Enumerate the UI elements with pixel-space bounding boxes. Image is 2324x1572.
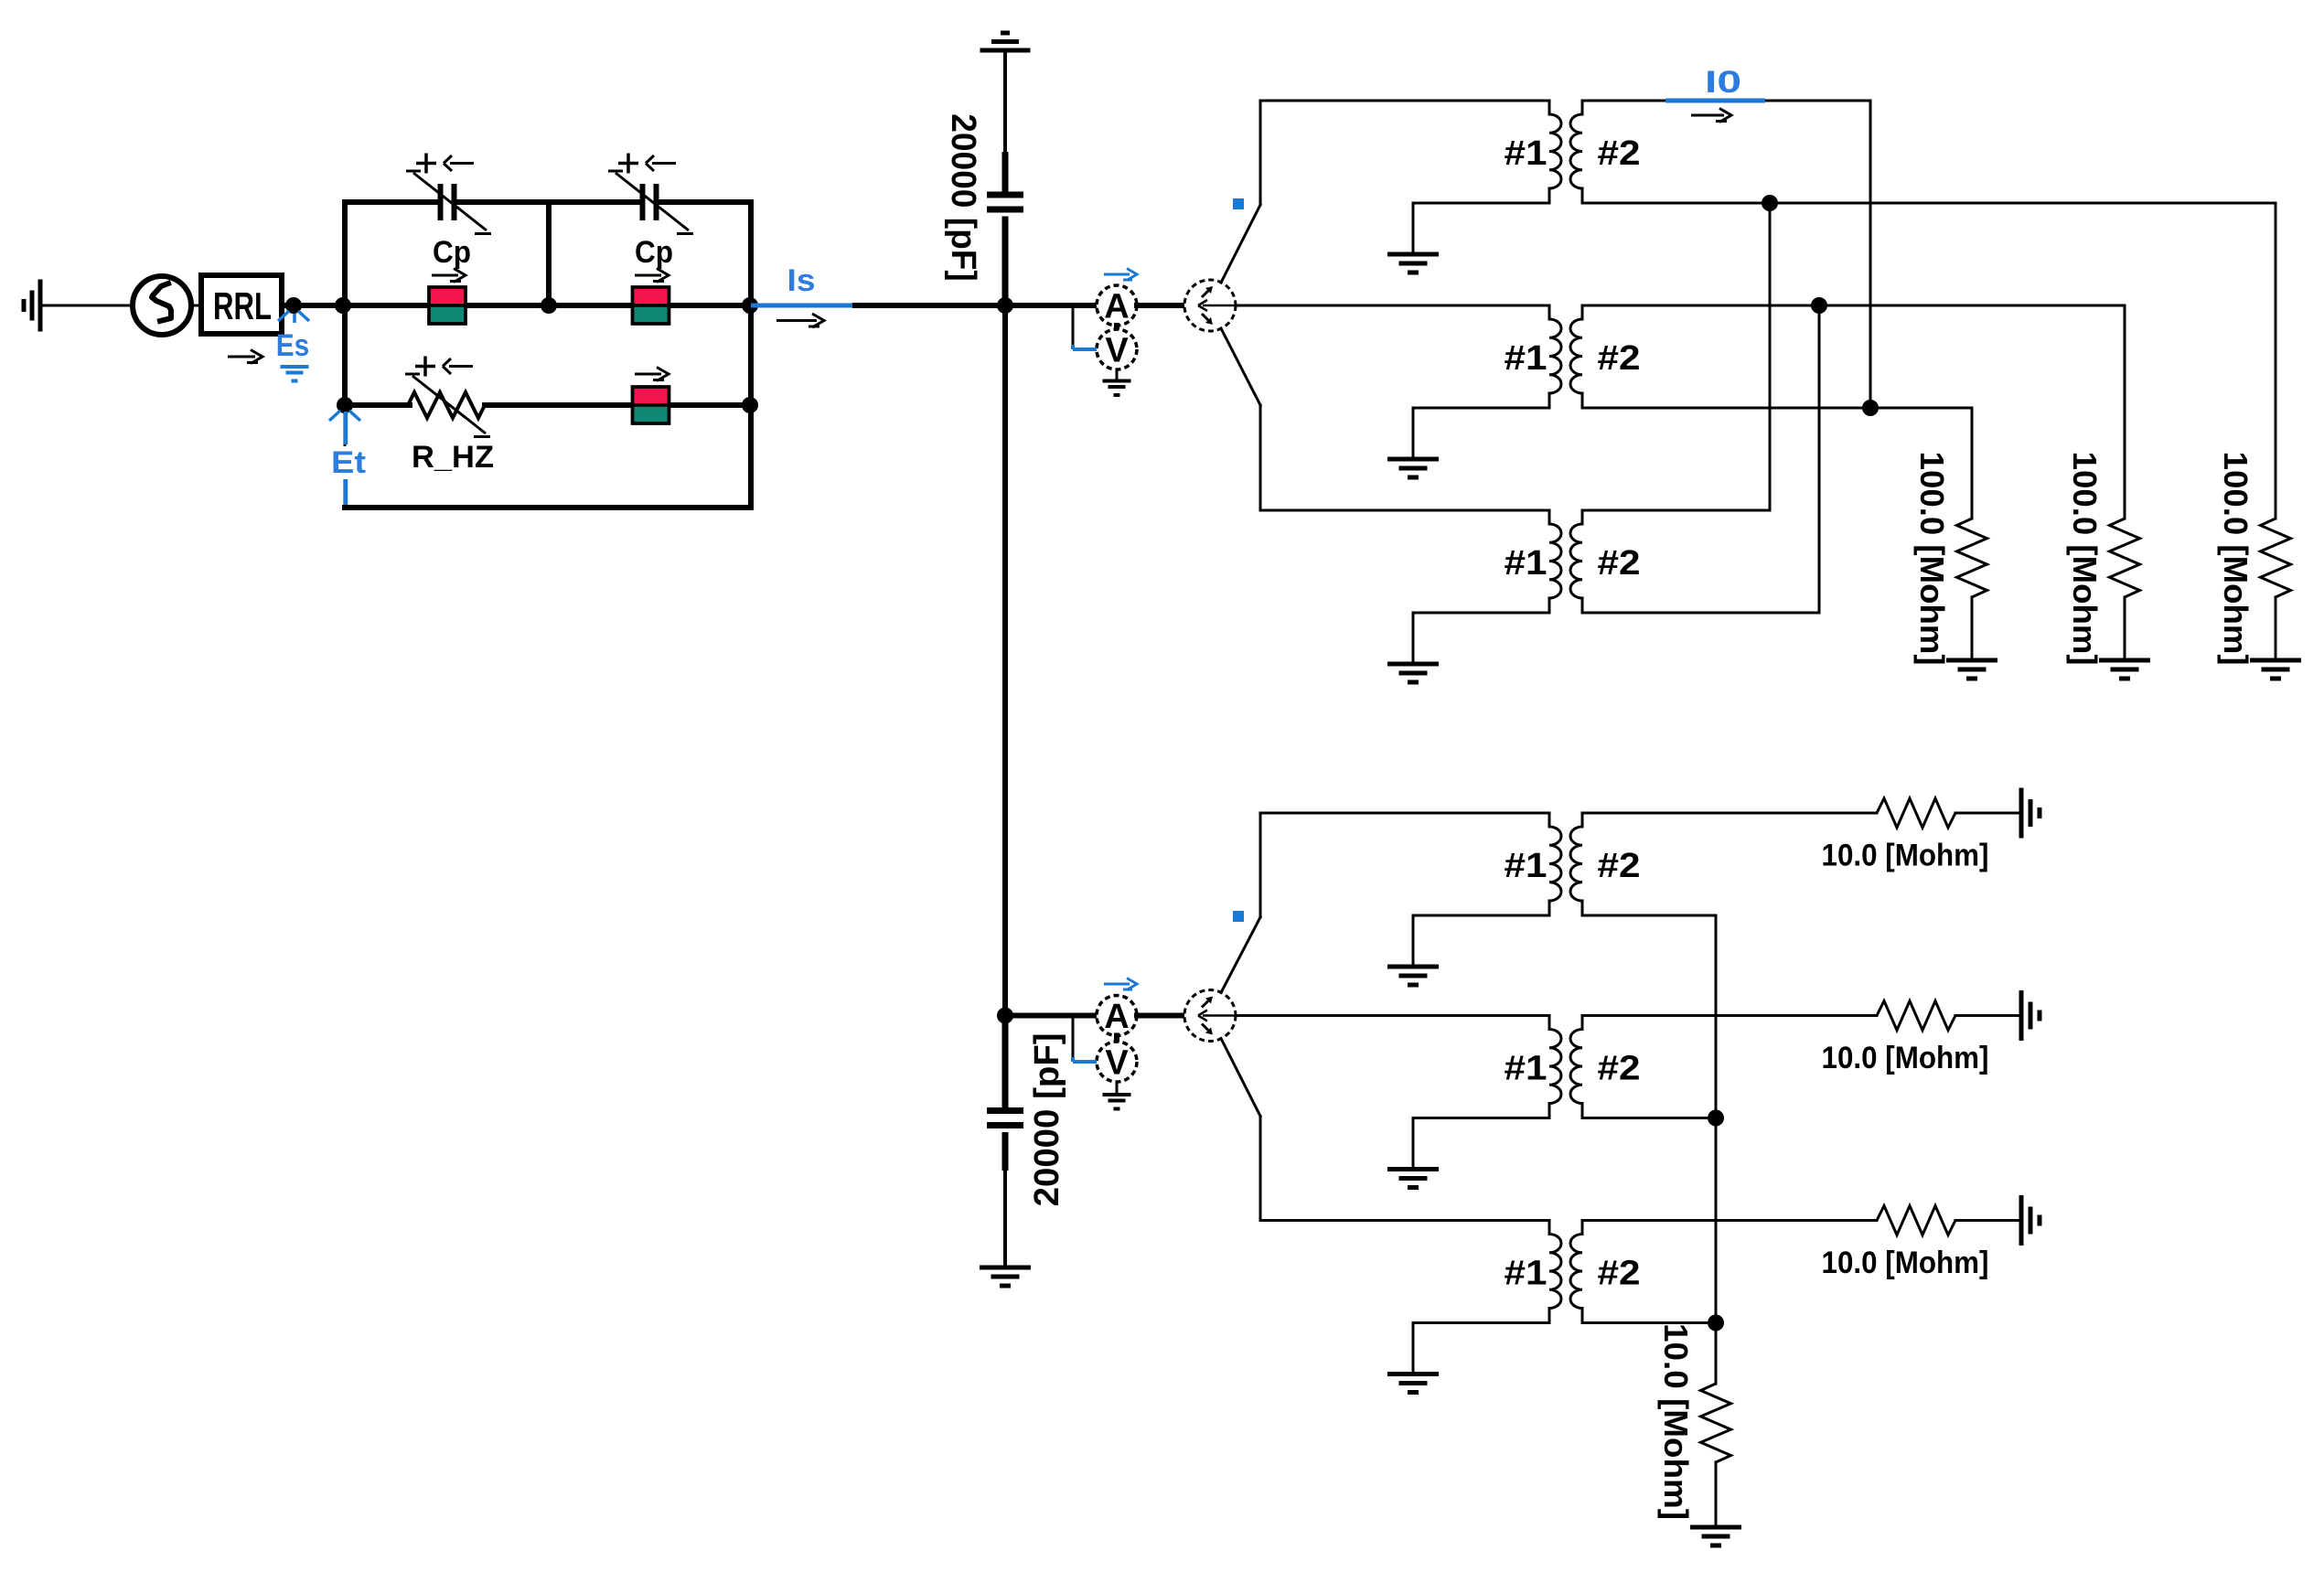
wire: T3 #2 bottom: [1582, 612, 1819, 615]
resistor R5 10.0 Mohm: [1877, 1001, 1955, 1031]
wire: top branch middle segment: [457, 199, 639, 205]
variable capacitor Cp (top-right): [643, 184, 657, 220]
ground T1: [1387, 254, 1439, 273]
wire: top branch center tap: [546, 202, 552, 305]
svg-text:#2: #2: [1598, 339, 1641, 378]
junction dot center tap / middle branch: [541, 297, 557, 314]
capacitor C2 20000 pF: [1002, 1016, 1009, 1171]
wire: R_HZ branch left segment: [345, 402, 410, 408]
wire: R1 drop: [1971, 408, 1974, 519]
three-phase breakout B2: [1184, 990, 1236, 1042]
wire: A2 to V2 stub: [1114, 1036, 1119, 1043]
transformer T3 winding #2: [1570, 510, 1582, 613]
wire: V1 tap horizontal (blue): [1073, 345, 1097, 349]
three-phase breakout B1: [1184, 280, 1236, 331]
wire: V1 tap vertical: [1072, 307, 1075, 345]
wire: R7 to ground: [1715, 1462, 1718, 1527]
ground T2: [1387, 459, 1439, 477]
ground R4: [2021, 788, 2040, 839]
ground R1: [1946, 660, 1997, 679]
wire: T1 ground drop: [1412, 203, 1415, 254]
wire: T6 ground drop: [1412, 1323, 1415, 1374]
wire: Is to main bus: [855, 303, 1005, 308]
wire: Cp network left bus upper: [342, 202, 348, 405]
ground R7: [1690, 1527, 1741, 1545]
junction dot riser / T6 #2 bottom: [1708, 1315, 1724, 1331]
ammeter A1: [1097, 285, 1137, 326]
wire: riser to T3 winding 1: [1260, 509, 1549, 512]
svg-text:Is: Is: [787, 263, 816, 298]
ground under V2: [1103, 1095, 1131, 1109]
wire: bus to ammeter A2: [1013, 1013, 1097, 1019]
resistor R2 100.0 Mohm: [2110, 519, 2140, 597]
wire: R6 to ground: [1955, 1219, 2020, 1222]
wire: R3 drop: [2275, 203, 2277, 519]
svg-text:V: V: [1105, 332, 1129, 370]
ground T6: [1387, 1374, 1439, 1393]
svg-text:RRL: RRL: [213, 284, 272, 327]
wire: T1 #1 to ground: [1413, 202, 1549, 205]
junction dot T2#2 / T3#2 riser: [1811, 297, 1827, 314]
ground T4: [1387, 967, 1439, 985]
svg-text:100.0 [Mohm]: 100.0 [Mohm]: [2217, 452, 2254, 666]
Et probe arrow: [329, 411, 360, 422]
variable capacitor Cp (top-right) variable marker: [608, 171, 693, 234]
wire: R4 to ground: [1955, 812, 2020, 815]
transformer T2 winding #1: [1549, 305, 1561, 408]
wire: A2 to splitter B2: [1137, 1013, 1184, 1019]
wire: R2 drop: [2124, 305, 2126, 519]
wire: source to RRL block: [191, 305, 201, 307]
source S1 circle: [133, 276, 191, 335]
wire: top branch left segment: [345, 199, 437, 205]
wire: ground to source S1: [40, 305, 133, 307]
wire: T5 ground drop: [1412, 1118, 1415, 1170]
transformer T5 winding #1: [1549, 1016, 1561, 1118]
wire: Cp network bottom return: [345, 505, 751, 510]
svg-text:#1: #1: [1505, 1050, 1548, 1088]
svg-text:#1: #1: [1505, 1255, 1548, 1293]
Es probe arrow: [278, 311, 309, 323]
flow arrow I0: [1691, 109, 1731, 123]
wire: R5 to ground: [1955, 1014, 2020, 1017]
source S1 glyph: [152, 283, 171, 321]
svg-text:Es: Es: [276, 328, 310, 363]
resistor R3 100.0 Mohm: [2261, 519, 2291, 597]
svg-text:10.0 [Mohm]: 10.0 [Mohm]: [1822, 1041, 1989, 1075]
svg-text:Cp: Cp: [433, 235, 471, 270]
wire: T2 #1 to ground: [1413, 407, 1549, 410]
wire: T6 #2 top to R6: [1582, 1219, 1877, 1222]
transformer T3 winding #1: [1549, 510, 1561, 613]
wire: T4 #2 bottom: [1582, 914, 1716, 917]
blue flow arrow above A1: [1104, 269, 1137, 281]
transformer T6 winding #2: [1570, 1221, 1582, 1323]
wire: T4 #1 to ground: [1413, 914, 1549, 917]
I0 net highlight (blue): [1665, 99, 1765, 103]
ground T3: [1387, 664, 1439, 682]
transformer T2 winding #2: [1570, 305, 1582, 408]
wire: T5 #2 bottom: [1582, 1117, 1716, 1119]
RRL block: [201, 275, 282, 334]
wire: V2 tap horizontal (blue): [1073, 1057, 1097, 1062]
resistor R6 10.0 Mohm: [1877, 1206, 1955, 1235]
svg-text:R_HZ: R_HZ: [412, 440, 494, 475]
wire: B1 to T2 winding 1: [1236, 305, 1549, 307]
wire: V2 to ground stem: [1116, 1082, 1119, 1095]
svg-text:#2: #2: [1598, 1050, 1641, 1088]
svg-text:A: A: [1104, 998, 1129, 1036]
variable element box Cp1: [429, 287, 466, 324]
wire: B2 top diagonal: [1221, 917, 1260, 993]
wire: T2 #2 top to R2 corner: [1582, 305, 2125, 307]
wire: B1 top riser: [1259, 101, 1262, 205]
wire: T3 ground drop: [1412, 613, 1415, 664]
wire: T6 #2 bottom: [1582, 1321, 1716, 1324]
wire: T4 ground drop: [1412, 915, 1415, 967]
ground R6: [2021, 1195, 2040, 1246]
capacitor C2 plates: [987, 1111, 1023, 1126]
wire: V1 to ground stem: [1116, 369, 1119, 380]
junction dot left bus / R_HZ branch: [337, 397, 353, 413]
junction dot right bus / middle branch (node Is): [742, 297, 758, 314]
wire: T3 #2 riser up: [1769, 203, 1772, 510]
svg-text:I0: I0: [1705, 65, 1741, 100]
wire: top ground to capacitor C1: [1003, 50, 1007, 152]
flow arrow Cp left box: [432, 269, 466, 283]
ground R3: [2250, 660, 2301, 679]
wire: T1 #2 top (I0 net): [1582, 100, 1870, 102]
svg-text:Cp: Cp: [635, 235, 673, 270]
junction dot T1#2 / T3#2 riser: [1762, 195, 1778, 211]
junction dot left bus / middle branch: [335, 297, 351, 314]
Et label: [330, 446, 369, 479]
wire: R3 to ground: [2275, 597, 2277, 660]
flow arrow box3: [635, 368, 669, 381]
wire: T1 #2 bottom to R3 corner: [1582, 202, 2276, 205]
transformer T4 winding #1: [1549, 813, 1561, 915]
voltmeter V1: [1097, 329, 1137, 369]
wire: RRL to Cp network: [282, 303, 345, 308]
ammeter A2: [1097, 996, 1137, 1036]
ground at top of bus: [980, 33, 1031, 50]
svg-text:#1: #1: [1505, 339, 1548, 378]
wire: B2 to T5 winding 1: [1236, 1014, 1549, 1017]
svg-text:100.0 [Mohm]: 100.0 [Mohm]: [1913, 452, 1951, 666]
node Es junction dot: [285, 297, 302, 314]
svg-text:20000 [pF]: 20000 [pF]: [1028, 1032, 1066, 1206]
wire: T3 #2 bottom riser up: [1818, 305, 1821, 613]
ground bars at source: [24, 280, 40, 332]
wire: riser to R7: [1715, 1323, 1718, 1385]
resistor R7 10.0 Mohm: [1701, 1384, 1731, 1462]
wire: T3 #1 to ground: [1413, 612, 1549, 615]
svg-text:#2: #2: [1598, 1255, 1641, 1293]
wire: common riser: [1715, 915, 1718, 1323]
junction dot bus / Is row: [997, 297, 1013, 314]
wire: B1 bottom diagonal: [1221, 328, 1260, 405]
wire: bus to ammeter A1: [1013, 303, 1097, 308]
wire: I0 riser down to R1 row: [1869, 101, 1872, 408]
wire: riser to T1 winding 1: [1260, 100, 1549, 102]
wire: riser to T4 winding 1: [1260, 812, 1549, 815]
Es probe mini ground: [281, 367, 309, 381]
resistor R_HZ: [408, 392, 485, 418]
svg-text:20000 [pF]: 20000 [pF]: [944, 113, 982, 282]
svg-text:V: V: [1105, 1044, 1129, 1083]
svg-text:Et: Et: [331, 445, 366, 480]
svg-text:10.0 [Mohm]: 10.0 [Mohm]: [1822, 839, 1989, 873]
wire: Cp network left bus lower: [344, 405, 347, 508]
svg-text:#1: #1: [1505, 847, 1548, 885]
wire: R_HZ branch right segment: [485, 402, 751, 408]
svg-text:100.0 [Mohm]: 100.0 [Mohm]: [2066, 452, 2104, 666]
svg-text:#1: #1: [1505, 544, 1548, 583]
wire: R2 to ground: [2124, 597, 2126, 660]
junction dot I0 riser / R1 row: [1862, 400, 1879, 416]
variable capacitor Cp (top-left): [441, 184, 455, 220]
wire: T2 ground drop: [1412, 408, 1415, 459]
ground T5: [1387, 1170, 1439, 1188]
wire: B1 bottom riser: [1259, 405, 1262, 510]
svg-text:#2: #2: [1598, 847, 1641, 885]
wire: riser to T6 winding 1: [1260, 1219, 1549, 1222]
wire: A1 to V1 stub: [1114, 326, 1119, 329]
R_HZ variable marker: [405, 374, 490, 437]
wire: top branch right segment: [659, 199, 751, 205]
wire: T2 #2 bottom to R1 corner: [1582, 407, 1972, 410]
junction dot riser / T5 #2 bottom: [1708, 1110, 1724, 1127]
wire: V2 tap vertical: [1072, 1018, 1075, 1058]
transformer T1 winding #1: [1549, 101, 1561, 203]
ground R5: [2021, 990, 2040, 1041]
ground R2: [2099, 660, 2150, 679]
svg-text:10.0 [Mohm]: 10.0 [Mohm]: [1657, 1323, 1695, 1520]
wire: capacitor C2 to bottom ground: [1003, 1171, 1007, 1267]
resistor R4 10.0 Mohm: [1877, 798, 1955, 828]
ground at bottom of bus: [980, 1267, 1031, 1286]
transformer T5 winding #2: [1570, 1016, 1582, 1118]
Is net wire (blue): [751, 304, 855, 308]
wire: main vertical bus: [1002, 305, 1008, 1016]
svg-text:#2: #2: [1598, 544, 1641, 583]
transformer T6 winding #1: [1549, 1221, 1561, 1323]
svg-text:10.0 [Mohm]: 10.0 [Mohm]: [1822, 1246, 1989, 1280]
capacitor C1 plates: [987, 195, 1023, 209]
ground under V1: [1103, 381, 1131, 396]
variable element box Cp2: [633, 287, 669, 324]
blue marker square B1: [1233, 198, 1244, 209]
variable element box (R_HZ branch): [633, 387, 669, 423]
svg-text:#2: #2: [1598, 134, 1641, 173]
wire: T5 #2 top to R5: [1582, 1014, 1877, 1017]
variable capacitor Cp (top-left) variable marker: [406, 171, 491, 234]
wire: T4 #2 top to R4: [1582, 812, 1877, 815]
wire: T6 #1 to ground: [1413, 1321, 1549, 1324]
wire: A1 to splitter B1: [1137, 303, 1184, 308]
blue flow arrow above A2: [1104, 978, 1137, 990]
wire: B2 bottom riser: [1259, 1117, 1262, 1221]
wire: R1 to ground: [1971, 597, 1974, 660]
junction dot bus / lower row: [997, 1008, 1013, 1024]
flow arrow under RRL: [228, 350, 262, 364]
wire: B2 bottom diagonal: [1221, 1039, 1260, 1117]
flow arrow Is: [776, 314, 824, 327]
junction dot right bus / R_HZ branch: [742, 397, 758, 413]
svg-text:#1: #1: [1505, 134, 1548, 173]
capacitor C1 20000 pF: [1002, 152, 1009, 305]
resistor R1 100.0 Mohm: [1957, 519, 1987, 597]
wire: B2 top riser: [1259, 813, 1262, 917]
voltmeter V2: [1097, 1042, 1137, 1082]
blue marker square B2: [1233, 911, 1244, 922]
transformer T1 winding #2: [1570, 101, 1582, 203]
wire: B1 top diagonal: [1221, 205, 1260, 283]
wire: T5 #1 to ground: [1413, 1117, 1549, 1119]
wire: middle branch: [345, 303, 751, 308]
flow arrow Cp right box: [635, 269, 669, 283]
svg-text:A: A: [1104, 288, 1129, 326]
transformer T4 winding #2: [1570, 813, 1582, 915]
wire: Cp network right bus: [748, 202, 754, 508]
wire: T3 #2 top: [1582, 509, 1770, 512]
